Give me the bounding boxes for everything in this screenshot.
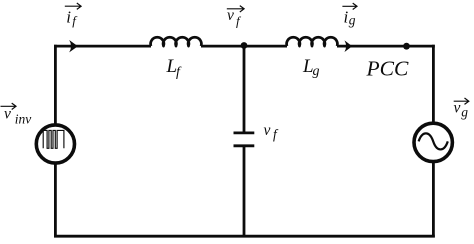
- wire: left vertical lower: [54, 164, 57, 238]
- svg-text:g: g: [461, 105, 468, 120]
- svg-text:f: f: [176, 65, 182, 80]
- svg-text:PCC: PCC: [366, 57, 409, 81]
- svg-text:v: v: [264, 122, 271, 139]
- voltage source V_inv circle (inverter): [36, 125, 74, 163]
- wire: capacitor branch upper: [243, 45, 246, 133]
- current arrowhead i_f on top wire: [69, 40, 78, 52]
- capacitor C_f bottom plate: [234, 144, 255, 147]
- vector arrow over v_inv: [1, 103, 17, 109]
- wire: left vertical upper: [54, 45, 57, 125]
- vector arrow over i_f: [65, 3, 81, 9]
- vector arrow over v_f node: [227, 6, 244, 12]
- wire: capacitor branch lower: [243, 146, 246, 238]
- inductor L_f: [151, 37, 202, 46]
- wire: right vertical lower: [432, 163, 435, 238]
- svg-text:f: f: [273, 127, 279, 142]
- inductor L_g: [287, 37, 338, 46]
- wire: top middle horizontal (Lf to Lg): [201, 45, 287, 48]
- node v_f junction dot: [241, 42, 248, 49]
- wire: bottom horizontal: [54, 235, 435, 238]
- PWM waveform symbol inside V_inv: [43, 130, 64, 148]
- wire: top-left horizontal (inverter to Lf): [54, 45, 151, 48]
- current arrowhead i_g on top wire: [345, 40, 353, 52]
- svg-text:g: g: [313, 64, 320, 79]
- vector arrow over i_g: [342, 3, 357, 9]
- wire: right vertical upper: [432, 45, 435, 123]
- svg-text:v: v: [454, 100, 461, 117]
- capacitor C_f top plate: [234, 131, 255, 134]
- vector arrow over v_g: [454, 98, 469, 104]
- svg-text:f: f: [72, 13, 78, 28]
- svg-text:v: v: [227, 7, 234, 24]
- node PCC dot: [403, 43, 410, 50]
- svg-text:g: g: [349, 13, 356, 28]
- AC source v_g circle (grid): [414, 123, 452, 161]
- sine symbol inside v_g: [419, 133, 448, 149]
- wire: top right horizontal (Lg to grid corner): [337, 45, 435, 48]
- svg-text:v: v: [4, 106, 11, 123]
- svg-text:i: i: [66, 8, 71, 27]
- svg-text:inv: inv: [15, 112, 32, 127]
- svg-text:f: f: [236, 14, 242, 29]
